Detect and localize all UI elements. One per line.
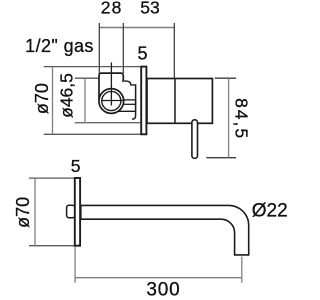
svg-text:28: 28 (101, 0, 123, 18)
o46,5 dimension line (84, 78, 86, 123)
wall plate (bottom figure) (75, 178, 80, 246)
lever rod (192, 120, 198, 159)
dimension line 28/53 (99, 27, 174, 29)
mixer cylinder body (147, 79, 212, 124)
svg-text:53: 53 (140, 0, 159, 18)
300 dimension line (75, 277, 242, 279)
84,5 extension top (215, 77, 236, 79)
crosshair horizontal (101, 100, 123, 102)
supply stub behind wall (67, 205, 75, 218)
svg-text:Ø22: Ø22 (252, 200, 288, 221)
o70 dimension line (top figure) (52, 67, 54, 135)
wall plate (top figure) (141, 67, 146, 135)
extension tick left (28) (98, 23, 100, 73)
o70 extension top (top figure) (44, 66, 141, 68)
extension tick middle (28/53) (122, 23, 124, 73)
o70 extension top (bottom figure) (29, 177, 74, 179)
body foot top shelf (122, 81, 136, 85)
o46,5 extension top (75, 77, 99, 79)
o70 extension bottom (bottom figure) (29, 245, 74, 247)
84,5 dimension line (228, 78, 230, 158)
valve body block (in-wall) (99, 73, 123, 100)
84,5 extension bottom (206, 157, 236, 159)
svg-text:5: 5 (71, 156, 81, 176)
body bottom edge (118, 110, 136, 112)
svg-text:ø46,5: ø46,5 (56, 73, 76, 118)
crosshair vertical / inlet axis center line (110, 62, 112, 105)
svg-text:ø70: ø70 (32, 83, 52, 114)
o70 dimension line (bottom figure) (34, 178, 36, 246)
svg-text:ø70: ø70 (13, 197, 33, 228)
300 extension right (241, 257, 243, 283)
o70 extension bottom (top figure) (44, 133, 141, 135)
nut divider with bottom hook (132, 84, 136, 119)
inlet connection inner circle (102, 91, 121, 110)
svg-text:5: 5 (137, 43, 147, 63)
svg-text:300: 300 (146, 279, 180, 300)
svg-text:1/2" gas: 1/2" gas (25, 36, 94, 56)
o46,5 extension bottom (75, 122, 140, 124)
svg-text:84,5: 84,5 (232, 98, 252, 140)
spout tube (81, 205, 249, 255)
inlet nipple tube (121, 100, 136, 104)
cylinder seam line (174, 79, 176, 124)
300 extension left (74, 247, 76, 283)
inlet connection outer circle (99, 89, 124, 114)
extension tick right (53) (173, 23, 175, 78)
